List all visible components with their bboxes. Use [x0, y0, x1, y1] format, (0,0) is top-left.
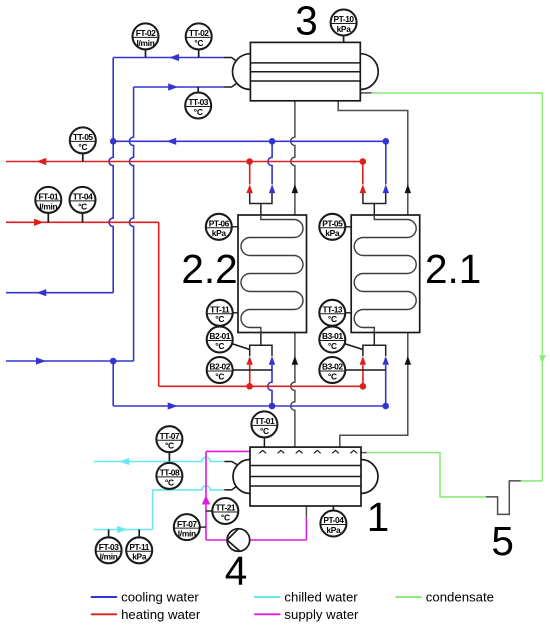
- svg-text:TT-03: TT-03: [188, 97, 208, 107]
- svg-text:B3-01: B3-01: [322, 331, 343, 341]
- svg-text:B2-02: B2-02: [209, 362, 230, 372]
- svg-text:PT-04: PT-04: [323, 515, 344, 525]
- svg-text:FT-02: FT-02: [136, 28, 156, 38]
- coil inside unit 2.1: [354, 215, 416, 333]
- svg-text:l/min: l/min: [39, 201, 57, 211]
- svg-text:PT-05: PT-05: [322, 219, 343, 229]
- svg-text:PT-10: PT-10: [334, 14, 355, 24]
- pipe: supply water top run into HX1: [206, 450, 250, 452]
- pipe: blue branch into unit 2.1 top: [383, 141, 390, 193]
- pump 4 (circulation pump): [227, 529, 250, 552]
- pipe: condensate header to HX3: [372, 92, 543, 94]
- svg-text:FT-01: FT-01: [38, 192, 58, 202]
- instrument TT-07: [156, 426, 182, 461]
- svg-text:kPa: kPa: [212, 228, 227, 238]
- pipe: blue branch unit 2.1 bottom: [382, 356, 389, 406]
- svg-text:chilled water: chilled water: [284, 590, 358, 605]
- svg-text:TT-21: TT-21: [215, 503, 235, 513]
- svg-text:3: 3: [295, 0, 318, 44]
- legend: condensate: [396, 590, 495, 605]
- instrument TT-04: [70, 187, 96, 222]
- junction: [360, 158, 367, 165]
- instrument TT-08: [156, 463, 182, 490]
- svg-text:TT-07: TT-07: [160, 431, 180, 441]
- pipe: red branch unit 2.2 bottom: [246, 356, 253, 386]
- svg-text:°C: °C: [260, 426, 269, 436]
- pipe: supply water pump discharge riser: [202, 451, 210, 540]
- junction: [383, 138, 390, 145]
- instrument TT-11: [207, 300, 238, 326]
- svg-text:2.2: 2.2: [181, 246, 237, 292]
- svg-text:PT-11: PT-11: [129, 542, 149, 552]
- svg-text:°C: °C: [194, 38, 203, 48]
- pipe: red branch unit 2.1 bottom: [360, 356, 367, 386]
- svg-text:°C: °C: [194, 107, 203, 117]
- svg-text:2.1: 2.1: [425, 246, 481, 292]
- svg-text:°C: °C: [78, 201, 87, 211]
- svg-text:TT-08: TT-08: [160, 468, 180, 478]
- instrument TT-01: [251, 411, 277, 437]
- svg-text:kPa: kPa: [337, 24, 352, 34]
- pipe: shell vapour line HX3 bottom to unit 2.2 top: [291, 101, 298, 215]
- instrument PT-04: [320, 506, 346, 537]
- pipe: chilled water supply to HX1: [153, 486, 224, 490]
- legend: cooling water: [91, 590, 200, 605]
- pipe: cooling water supply riser to HX3: [129, 87, 133, 361]
- svg-text:°C: °C: [215, 371, 224, 381]
- top header unit 2.2: [250, 193, 272, 215]
- instrument PT-06: [206, 214, 238, 240]
- pipe: HX1 bottom drain stub (gray): [305, 506, 307, 518]
- pipe: cooling water return outlet: [6, 289, 113, 296]
- svg-text:4: 4: [225, 548, 248, 594]
- svg-text:°C: °C: [221, 512, 230, 522]
- svg-text:kPa: kPa: [325, 228, 340, 238]
- svg-text:PT-06: PT-06: [209, 219, 230, 229]
- heat exchanger 3 (shell): [224, 42, 378, 100]
- pipe: condensate riser (right side) with flow arrow: [539, 93, 546, 481]
- svg-text:TT-13: TT-13: [322, 305, 342, 315]
- legend: supply water: [254, 607, 359, 622]
- junction: [110, 358, 117, 365]
- svg-text:°C: °C: [328, 314, 337, 324]
- instrument TT-13: [319, 300, 351, 326]
- svg-text:5: 5: [491, 518, 514, 564]
- instrument B2-02: [207, 357, 272, 383]
- svg-text:°C: °C: [78, 142, 87, 152]
- svg-text:heating water: heating water: [121, 607, 201, 622]
- svg-text:1: 1: [367, 494, 390, 540]
- pipe: cooling water supply bottom header: [113, 402, 386, 409]
- svg-text:°C: °C: [328, 371, 337, 381]
- instrument FT-03: [96, 530, 122, 564]
- svg-text:°C: °C: [215, 341, 224, 351]
- junction: [246, 383, 253, 390]
- svg-text:TT-01: TT-01: [255, 416, 275, 426]
- pipe: unit 2.1 bottom shell to HX1 top (jog): [340, 333, 411, 448]
- instrument PT-11: [126, 530, 152, 564]
- pipe: HX3 condensate stub: [360, 92, 372, 94]
- pipe: blue branch into unit 2.2 top: [268, 141, 275, 193]
- instrument FT-07: [174, 514, 206, 540]
- steam trap 5 (loop seal): [486, 481, 521, 515]
- coil inside unit 2.2: [241, 215, 303, 333]
- junction: [269, 138, 276, 145]
- svg-text:TT-11: TT-11: [210, 305, 230, 315]
- pipe: condensate trap outlet to riser: [521, 480, 543, 482]
- pipe: HX1 condensate stub: [361, 452, 367, 454]
- svg-text:l/min: l/min: [136, 38, 154, 48]
- bottom header unit 2.1: [363, 333, 386, 357]
- junction: [269, 403, 276, 410]
- pipe: condensate from HX1 to trap: [367, 453, 486, 497]
- junction: [246, 158, 253, 165]
- pipe: cooling water return header from units 2.1/2.2: [113, 138, 386, 145]
- bottom header unit 2.2: [250, 333, 272, 357]
- pipe: shell vapour line HX3 bottom to unit 2.1 top (jog): [338, 101, 411, 215]
- pipe: TT-01 tap on HX1 top: [263, 438, 265, 447]
- pipe: blue branch unit 2.2 bottom: [268, 356, 275, 406]
- svg-text:B2-01: B2-01: [209, 331, 230, 341]
- instrument B3-02: [319, 357, 385, 383]
- instrument FT-01: [35, 187, 61, 222]
- svg-text:TT-04: TT-04: [73, 192, 93, 202]
- instrument PT-05: [319, 214, 351, 240]
- pipe: cooling water supply inlet: [6, 357, 134, 364]
- svg-text:°C: °C: [165, 441, 174, 451]
- pipe: heating water supply (inlet, drop and bottom header): [6, 219, 363, 387]
- heat exchanger 1 (shell): [224, 447, 378, 506]
- instrument PT-10: [331, 10, 357, 43]
- evaporator unit 2.1 (vessel): [351, 215, 420, 333]
- svg-text:supply water: supply water: [284, 607, 359, 622]
- instrument TT-03: [185, 87, 211, 119]
- legend: chilled water: [254, 590, 358, 605]
- pipe: red branch unit 2.2 top: [246, 162, 253, 194]
- pipe: cooling water return riser: [109, 58, 113, 293]
- svg-text:FT-03: FT-03: [99, 542, 119, 552]
- svg-text:°C: °C: [215, 314, 224, 324]
- instrument FT-02: [133, 23, 159, 57]
- svg-text:TT-02: TT-02: [189, 28, 209, 38]
- svg-text:condensate: condensate: [426, 590, 494, 605]
- junction: [360, 383, 367, 390]
- pipe: cooling water supply drop: [112, 361, 114, 406]
- pipe: cooling water supply to HX3 bottom nozzle: [134, 83, 224, 90]
- svg-text:kPa: kPa: [132, 552, 147, 562]
- junction: [382, 403, 389, 410]
- instrument TT-05: [70, 127, 96, 161]
- pipe: cooling water return from HX3 top nozzle: [113, 54, 224, 61]
- pipe: chilled water return (exit left): [94, 457, 224, 465]
- svg-text:FT-07: FT-07: [177, 519, 197, 529]
- svg-text:l/min: l/min: [178, 529, 196, 539]
- evaporator unit 2.2 (vessel): [238, 215, 307, 333]
- instrument B3-01: [319, 327, 363, 353]
- svg-text:°C: °C: [328, 341, 337, 351]
- junction: [110, 138, 117, 145]
- instrument B2-01: [207, 327, 250, 353]
- pipe: heating water return header (exit left): [6, 158, 363, 165]
- svg-text:°C: °C: [165, 477, 174, 487]
- instrument TT-21: [206, 498, 238, 524]
- instrument TT-02: [186, 23, 212, 57]
- svg-text:l/min: l/min: [100, 552, 118, 562]
- svg-text:cooling water: cooling water: [121, 590, 199, 605]
- legend: heating water: [91, 607, 201, 622]
- pipe: red branch unit 2.1 top: [360, 162, 367, 194]
- pipe: chilled water supply riser: [152, 490, 154, 530]
- svg-text:kPa: kPa: [326, 525, 341, 535]
- pipe: unit 2.2 bottom shell to HX1 top: [291, 333, 298, 448]
- pipe: chilled water supply inlet: [94, 526, 153, 533]
- svg-text:B3-02: B3-02: [322, 362, 343, 372]
- pipe: pump suction from HX1 drain: [206, 518, 306, 540]
- top header unit 2.1: [363, 193, 386, 215]
- svg-text:TT-05: TT-05: [73, 132, 93, 142]
